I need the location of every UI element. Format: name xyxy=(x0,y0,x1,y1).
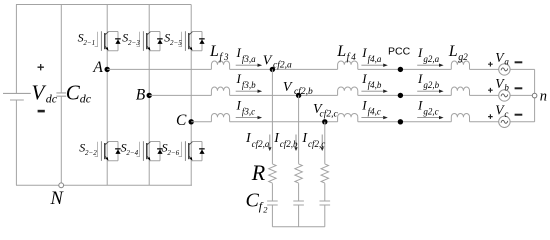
svg-text:2−1: 2−1 xyxy=(83,39,95,47)
svg-text:2−2: 2−2 xyxy=(85,149,97,157)
label minus of Vc xyxy=(515,114,523,116)
svg-text:f: f xyxy=(219,52,223,63)
svg-text:g2,b: g2,b xyxy=(423,80,439,90)
svg-text:g2,a: g2,a xyxy=(423,54,439,64)
svg-text:cf2,a: cf2,a xyxy=(273,60,292,71)
wire phase c xyxy=(191,121,534,123)
node C xyxy=(189,119,194,124)
svg-text:C: C xyxy=(246,189,260,211)
svg-text:f4,c: f4,c xyxy=(368,107,381,117)
inductor Lg2 c xyxy=(451,113,469,121)
current Icf2,a xyxy=(269,135,271,148)
label minus of Vdc xyxy=(38,110,45,113)
svg-text:cf2,c: cf2,c xyxy=(320,108,339,119)
svg-text:I: I xyxy=(417,98,423,113)
current Icf2,b xyxy=(295,135,297,148)
svg-text:V: V xyxy=(263,53,273,68)
transistor S2-5 xyxy=(179,31,205,51)
svg-text:f3,a: f3,a xyxy=(242,54,256,64)
resistor R branch a xyxy=(269,164,276,183)
wire grid neutral xyxy=(534,69,536,121)
svg-text:f4,b: f4,b xyxy=(368,80,382,90)
transistor S2-2 xyxy=(95,141,121,161)
svg-text:I: I xyxy=(236,98,242,113)
capacitor Cf2 branch b xyxy=(293,201,304,205)
wire inverter leg A xyxy=(106,5,108,186)
svg-text:c: c xyxy=(504,109,508,119)
svg-text:2−5: 2−5 xyxy=(170,39,182,47)
inductor Lf3 a xyxy=(211,61,229,69)
svg-text:N: N xyxy=(50,189,65,209)
wire phase b xyxy=(149,94,534,96)
transistor S2-1 xyxy=(95,31,121,51)
svg-text:2−3: 2−3 xyxy=(128,39,140,47)
transistor S2-6 xyxy=(179,141,205,161)
svg-text:n: n xyxy=(540,89,547,105)
svg-text:I: I xyxy=(236,45,242,60)
svg-text:g2,c: g2,c xyxy=(423,107,438,117)
inductor Lg2 b xyxy=(451,87,469,95)
wire capacitor branch a xyxy=(271,69,273,226)
wire capacitor branch b xyxy=(298,95,300,226)
inductor Lf3 c xyxy=(211,113,229,121)
svg-text:cf2,b: cf2,b xyxy=(294,86,313,97)
node PCC a xyxy=(398,67,403,72)
svg-text:L: L xyxy=(336,43,346,60)
resistor R branch c xyxy=(321,164,328,183)
inductor Lf4 c xyxy=(338,113,358,121)
node PCC c xyxy=(398,119,403,124)
node n xyxy=(532,93,537,98)
svg-text:I: I xyxy=(361,71,367,86)
svg-text:C: C xyxy=(176,112,187,129)
svg-text:4: 4 xyxy=(351,52,356,62)
inductor Lf4 b xyxy=(338,87,358,95)
wire capacitor branch c xyxy=(324,122,326,227)
node Vcf2,b xyxy=(296,93,301,98)
voltage source Vc xyxy=(499,116,510,127)
node N xyxy=(59,183,64,188)
svg-text:2: 2 xyxy=(263,205,268,215)
svg-text:2−4: 2−4 xyxy=(126,149,138,157)
label minus of Vb xyxy=(515,87,523,89)
voltage source Vb xyxy=(499,90,510,101)
wire bottom DC rail xyxy=(16,184,192,186)
transistor S2-3 xyxy=(137,31,163,51)
svg-text:cf2,c: cf2,c xyxy=(308,139,325,149)
svg-text:f3,c: f3,c xyxy=(242,107,255,117)
svg-text:I: I xyxy=(417,71,423,86)
resistor R branch b xyxy=(295,164,302,183)
wire top DC rail xyxy=(16,4,191,6)
wire inverter leg C xyxy=(190,5,192,186)
capacitor Cf2 branch a xyxy=(267,201,278,205)
svg-text:f4,a: f4,a xyxy=(368,54,382,64)
svg-text:b: b xyxy=(504,83,509,93)
label plus of Va xyxy=(488,62,493,67)
label minus of Va xyxy=(515,61,523,63)
svg-text:I: I xyxy=(361,45,367,60)
svg-text:cf2,b: cf2,b xyxy=(280,139,298,149)
voltage source Va xyxy=(499,64,510,75)
capacitor Cf2 branch c xyxy=(320,201,331,205)
node PCC b xyxy=(398,93,403,98)
svg-text:dc: dc xyxy=(46,92,58,106)
node B xyxy=(147,93,152,98)
svg-text:a: a xyxy=(504,57,509,67)
wire capacitor neutral tie xyxy=(272,226,324,228)
capacitor Cdc xyxy=(56,93,66,96)
inductor Lf4 a xyxy=(338,61,358,69)
current Icf2,c xyxy=(321,135,323,148)
label plus of Vdc xyxy=(38,64,44,70)
node Vcf2,c xyxy=(322,119,327,124)
label plus of Vb xyxy=(488,88,493,93)
node A xyxy=(105,67,110,72)
wire inverter leg B xyxy=(148,5,150,186)
svg-text:I: I xyxy=(361,98,367,113)
svg-text:2−6: 2−6 xyxy=(167,149,179,157)
label plus of Vc xyxy=(488,114,493,119)
inductor Lf3 b xyxy=(211,87,229,95)
svg-text:cf2,a: cf2,a xyxy=(252,139,270,149)
svg-text:L: L xyxy=(209,43,219,60)
svg-text:f3,b: f3,b xyxy=(242,80,256,90)
svg-text:V: V xyxy=(32,80,47,104)
svg-text:C: C xyxy=(66,80,81,104)
svg-text:R: R xyxy=(251,160,266,185)
svg-text:PCC: PCC xyxy=(388,45,411,57)
battery Vdc xyxy=(3,93,31,100)
inductor Lg2 a xyxy=(451,61,469,69)
svg-text:I: I xyxy=(236,71,242,86)
svg-text:A: A xyxy=(92,59,103,76)
wire Cdc leg xyxy=(60,5,62,186)
svg-text:B: B xyxy=(136,87,146,104)
svg-text:3: 3 xyxy=(223,52,229,62)
svg-text:I: I xyxy=(417,45,423,60)
svg-text:dc: dc xyxy=(80,92,92,106)
svg-text:L: L xyxy=(448,43,458,60)
transistor S2-4 xyxy=(137,141,163,161)
svg-text:V: V xyxy=(283,80,293,95)
svg-text:2: 2 xyxy=(463,52,468,62)
node Vcf2,a xyxy=(270,67,275,72)
wire phase a xyxy=(107,68,534,70)
wire DC source leg xyxy=(15,5,17,186)
